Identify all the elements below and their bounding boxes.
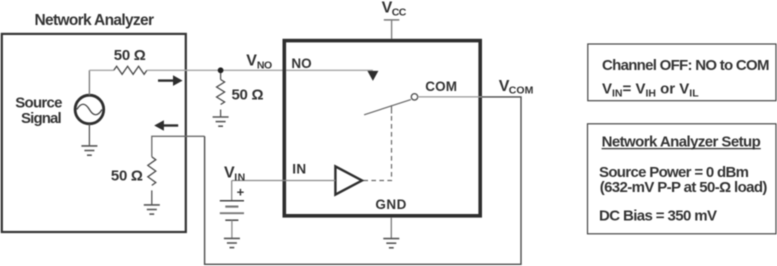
svg-text:IN: IN <box>292 162 306 177</box>
source AC generator <box>75 95 104 124</box>
svg-text:50 Ω: 50 Ω <box>232 86 264 103</box>
svg-text:Signal: Signal <box>21 110 62 127</box>
switch IC box <box>284 41 480 216</box>
svg-text:50 Ω: 50 Ω <box>111 167 143 184</box>
svg-text:+: + <box>237 185 245 200</box>
battery VIN bias <box>231 181 233 201</box>
note box: network analyzer setup <box>588 124 777 234</box>
battery stem <box>231 220 233 238</box>
ground (receive) <box>144 205 160 214</box>
battery plates <box>220 200 244 202</box>
svg-text:NO: NO <box>257 60 272 72</box>
svg-text:GND: GND <box>375 197 406 212</box>
Network Analyzer box <box>2 34 186 232</box>
svg-text:Source: Source <box>15 95 62 112</box>
wire COM to edge <box>418 96 482 98</box>
svg-text:(632-mV P-P at 50-Ω load): (632-mV P-P at 50-Ω load) <box>600 179 768 196</box>
resistor 50ohm series <box>114 66 147 74</box>
ground (source) <box>81 146 97 155</box>
resistor 50ohm shunt <box>220 73 222 80</box>
resistor 50ohm receive <box>148 157 156 186</box>
wire source to resistor <box>88 70 90 95</box>
receive termination wire <box>152 136 205 157</box>
svg-text:Network Analyzer Setup: Network Analyzer Setup <box>602 133 761 150</box>
dashed control link <box>391 105 393 113</box>
switch pole triangle <box>367 71 378 81</box>
svg-text:Channel OFF: NO to COM: Channel OFF: NO to COM <box>602 57 770 74</box>
switch arm <box>364 100 411 115</box>
svg-text:CC: CC <box>392 6 407 18</box>
svg-text:COM: COM <box>509 84 534 96</box>
svg-text:COM: COM <box>425 79 457 94</box>
svg-text:Network Analyzer: Network Analyzer <box>35 12 155 29</box>
svg-text:50 Ω: 50 Ω <box>114 47 146 64</box>
svg-text:NO: NO <box>291 56 311 71</box>
wire NO to switch pole <box>286 69 373 71</box>
arrow left (signal direction in) <box>163 124 178 126</box>
junction node VNO <box>218 67 224 73</box>
wire resistor to switch box <box>147 69 284 71</box>
svg-text:DC Bias = 350 mV: DC Bias = 350 mV <box>599 208 717 225</box>
wire IN <box>232 180 336 182</box>
ground (battery) <box>224 238 240 247</box>
svg-text:IN: IN <box>234 171 245 183</box>
note box: channel state <box>588 44 776 101</box>
wire source to ground <box>88 124 90 146</box>
arrow right (signal direction out) <box>158 79 174 81</box>
buffer triangle <box>335 166 362 194</box>
ground (GND pin) <box>383 239 399 248</box>
svg-text:V: V <box>246 52 257 69</box>
wire VCOM loop <box>205 97 521 264</box>
ground (shunt) <box>213 117 229 126</box>
wire GND to ground <box>390 218 392 239</box>
COM contact circle <box>411 94 417 100</box>
